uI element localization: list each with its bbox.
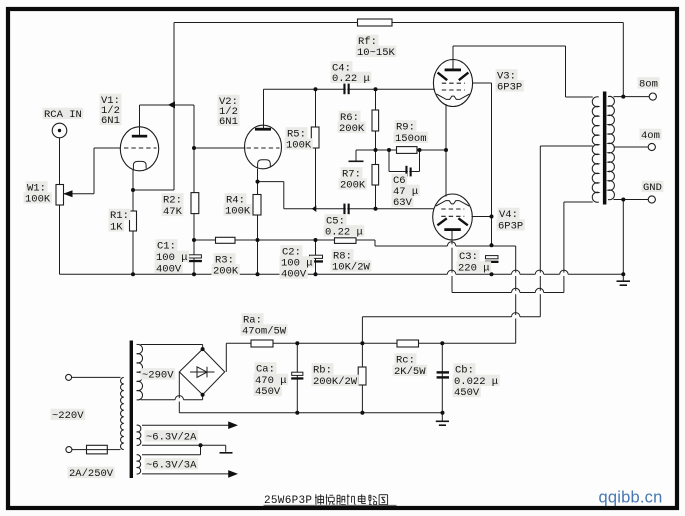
svg-text:100K: 100K: [286, 140, 312, 152]
svg-text:Rb:: Rb:: [313, 365, 332, 377]
svg-text:400V: 400V: [156, 264, 182, 276]
svg-text:6N1: 6N1: [101, 115, 120, 127]
svg-text:V4:: V4:: [499, 209, 518, 221]
svg-text:47K: 47K: [163, 206, 183, 218]
svg-text:450V: 450V: [454, 387, 480, 399]
svg-text:6P3P: 6P3P: [497, 82, 522, 94]
svg-text:8om: 8om: [639, 79, 658, 91]
svg-text:~6.3V/3A: ~6.3V/3A: [146, 460, 197, 472]
svg-text:400V: 400V: [281, 269, 307, 281]
svg-text:220 μ: 220 μ: [458, 263, 490, 275]
svg-text:100K: 100K: [225, 206, 251, 218]
svg-text:~6.3V/2A: ~6.3V/2A: [146, 432, 197, 444]
svg-text:100 μ: 100 μ: [156, 252, 188, 264]
svg-text:C1:: C1:: [157, 241, 176, 253]
svg-text:R1:: R1:: [110, 210, 129, 222]
svg-text:2A/250V: 2A/250V: [69, 468, 114, 480]
svg-text:10~15K: 10~15K: [357, 47, 396, 59]
svg-text:63V: 63V: [393, 197, 413, 209]
svg-text:6P3P: 6P3P: [498, 221, 523, 233]
svg-text:Ca:: Ca:: [256, 364, 275, 376]
svg-text:0.22 μ: 0.22 μ: [325, 227, 363, 239]
svg-text:200K: 200K: [340, 180, 366, 192]
svg-text:GND: GND: [643, 182, 662, 194]
svg-text:Cb:: Cb:: [455, 365, 474, 377]
svg-text:2K/5W: 2K/5W: [394, 366, 426, 378]
svg-text:200K: 200K: [339, 123, 365, 135]
svg-text:100K: 100K: [25, 194, 51, 206]
svg-text:R2:: R2:: [163, 195, 182, 207]
svg-text:C3:: C3:: [459, 251, 478, 263]
svg-text:10K/2W: 10K/2W: [332, 262, 371, 274]
svg-text:0.22 μ: 0.22 μ: [332, 73, 370, 85]
svg-text:4om: 4om: [641, 130, 660, 142]
svg-text:47om/5W: 47om/5W: [242, 326, 287, 338]
svg-text:150om: 150om: [395, 133, 427, 145]
svg-text:6N1: 6N1: [219, 116, 238, 128]
svg-text:~290V: ~290V: [142, 370, 174, 382]
svg-text:200K: 200K: [213, 266, 239, 278]
svg-text:R9:: R9:: [396, 122, 415, 134]
svg-text:Rc:: Rc:: [396, 355, 415, 367]
svg-text:200K/2W: 200K/2W: [313, 376, 358, 388]
svg-text:RCA IN: RCA IN: [44, 109, 82, 121]
svg-text:~220V: ~220V: [52, 410, 84, 422]
svg-text:qqibb.cn: qqibb.cn: [599, 489, 663, 507]
svg-text:1K: 1K: [110, 222, 123, 234]
svg-text:450V: 450V: [255, 386, 281, 398]
